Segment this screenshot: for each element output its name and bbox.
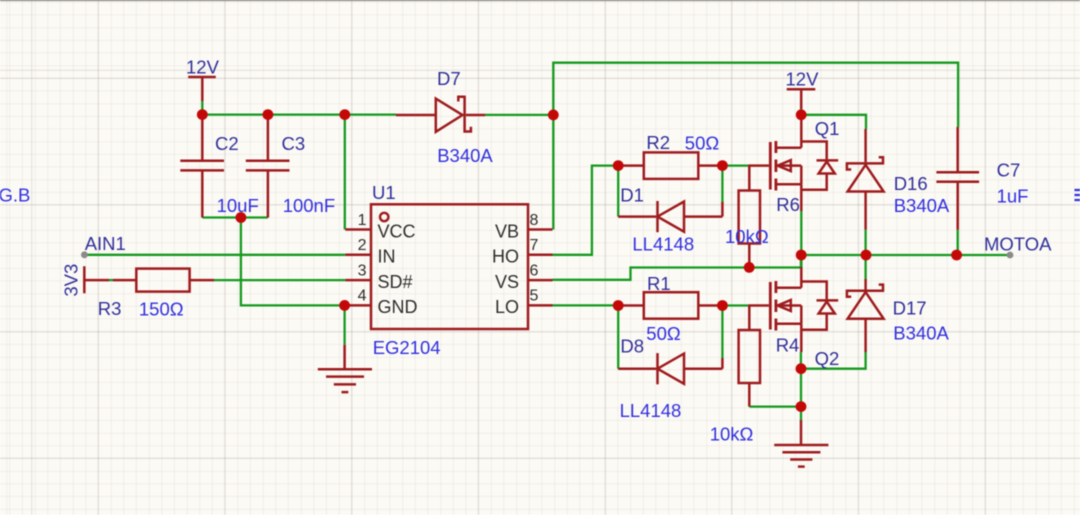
svg-text:12V: 12V [786, 69, 820, 90]
wire D16 anode lower [864, 230, 866, 255]
svg-text:2: 2 [358, 237, 367, 254]
transistor Q1 [748, 164, 769, 167]
IC U1 body [371, 204, 528, 329]
svg-text:B340A: B340A [437, 145, 493, 166]
wire D1 left riser [617, 166, 619, 217]
svg-text:10kΩ: 10kΩ [710, 424, 754, 445]
svg-text:8: 8 [530, 212, 539, 229]
capacitor C7 [936, 127, 979, 230]
svg-text:C3: C3 [282, 133, 306, 154]
svg-text:IN: IN [378, 247, 396, 267]
svg-text:150Ω: 150Ω [139, 299, 184, 320]
wire 3V3 tick [109, 279, 113, 281]
node VCC junction [339, 109, 350, 120]
wire VB long top rail [553, 63, 958, 230]
resistor R1 [618, 304, 722, 307]
power flag 12V right [787, 89, 816, 109]
power flag 12V left [188, 77, 216, 101]
wire Q2 gate [722, 304, 748, 306]
wire D1 right riser [721, 166, 723, 202]
svg-text:Q1: Q1 [815, 118, 840, 139]
wire HO to R2/D1 node [553, 166, 619, 255]
svg-text:1uF: 1uF [997, 186, 1029, 207]
svg-text:G.B: G.B [0, 184, 30, 205]
svg-text:R4: R4 [776, 334, 800, 355]
svg-text:LL4148: LL4148 [620, 400, 682, 421]
svg-text:HO: HO [492, 247, 519, 267]
svg-text:VCC: VCC [378, 221, 416, 241]
svg-text:LO: LO [495, 297, 519, 317]
svg-text:LL4148: LL4148 [632, 234, 694, 255]
node VS output junction [796, 250, 807, 261]
svg-text:50Ω: 50Ω [646, 323, 681, 344]
svg-text:D7: D7 [437, 68, 461, 89]
svg-text:7: 7 [530, 237, 539, 254]
svg-text:B340A: B340A [894, 195, 950, 216]
node R4 bottom junction [796, 401, 807, 412]
node C2C3 bottom junction [236, 212, 247, 223]
wire D8 left riser [617, 306, 619, 369]
wire GND stub U1 [343, 305, 345, 344]
diode D17 [864, 279, 867, 290]
svg-text:SD#: SD# [378, 272, 413, 292]
capacitor C3 [246, 115, 290, 218]
wire D17 anode lower [801, 352, 866, 369]
node R1 right junction [717, 300, 728, 311]
resistor R2 [618, 164, 722, 167]
resistor R6 [748, 166, 751, 268]
svg-text:50Ω: 50Ω [685, 133, 720, 154]
IC U1 pin stubs left [345, 230, 371, 306]
svg-text:R1: R1 [647, 273, 671, 294]
diode D8 [618, 367, 656, 370]
resistor R4 [748, 306, 751, 407]
svg-text:VS: VS [495, 272, 519, 292]
svg-text:C2: C2 [215, 133, 239, 154]
wire AIN1 [84, 254, 345, 256]
svg-text:12V: 12V [186, 57, 220, 78]
node C7 bottom junction [951, 250, 962, 261]
svg-text:R2: R2 [646, 132, 670, 153]
transistor Q2 [748, 304, 769, 307]
svg-text:100nF: 100nF [283, 195, 335, 216]
diode D16 [864, 129, 867, 162]
node R2 left junction [613, 160, 624, 171]
svg-text:D1: D1 [620, 184, 644, 205]
wire 12V rail top-left [202, 101, 396, 115]
wire R4 bottom link [749, 405, 801, 407]
net label fragment right edge [1075, 190, 1080, 200]
svg-text:10uF: 10uF [217, 195, 259, 216]
svg-text:R3: R3 [98, 298, 122, 319]
node R1 left junction [613, 300, 624, 311]
node C3 top junction [263, 109, 274, 120]
svg-text:VB: VB [495, 221, 519, 241]
svg-text:3: 3 [358, 262, 367, 279]
wire Q1 source lower [800, 211, 802, 255]
power flag 3V3 [84, 266, 109, 293]
wire LO to R1 [553, 304, 619, 306]
svg-text:6: 6 [530, 262, 539, 279]
node GND1 junction [339, 300, 350, 311]
node 12V-left junction [197, 109, 208, 120]
node AIN1 endpoint [81, 251, 88, 258]
capacitor C2 [180, 115, 224, 218]
wire 12V-right stub lower [800, 109, 802, 115]
wire output-gnd link [800, 369, 802, 407]
wire D8 right riser [721, 306, 723, 359]
svg-text:AIN1: AIN1 [85, 233, 126, 254]
svg-text:D8: D8 [620, 336, 644, 357]
wire C2 C3 bottom bar [202, 216, 268, 218]
svg-text:10kΩ: 10kΩ [725, 226, 769, 247]
diode D7 [396, 114, 436, 117]
svg-text:R6: R6 [776, 194, 800, 215]
svg-text:5: 5 [530, 288, 539, 305]
wire GND2 stub [800, 407, 802, 420]
wire GND trunk [241, 218, 345, 306]
wire VS run [553, 255, 802, 280]
resistor R3 [113, 279, 214, 282]
node MOTOA endpoint [1007, 252, 1014, 259]
ground G2 [774, 420, 828, 467]
wire D17 cathode upper [864, 255, 866, 279]
wire D7 cathode to VB node [485, 114, 553, 116]
svg-text:3V3: 3V3 [61, 264, 82, 297]
wire Q2 source to node [800, 352, 802, 369]
svg-text:MOTOA: MOTOA [984, 234, 1052, 255]
svg-text:D17: D17 [893, 298, 927, 319]
wire Q1 gate [722, 164, 748, 166]
IC U1 pin1 dot [380, 213, 388, 221]
diode D1 [618, 215, 656, 218]
svg-text:B340A: B340A [893, 322, 949, 343]
wire C7 bottom [957, 230, 959, 255]
IC U1 pin stubs right [528, 230, 553, 306]
svg-text:U1: U1 [372, 182, 396, 203]
node 12V-right junction [796, 109, 807, 120]
wire MOTOA rail [801, 254, 1010, 256]
node R6 bottom junction [744, 262, 755, 273]
wire Q2 drain upper [800, 255, 802, 267]
svg-text:4: 4 [358, 288, 367, 305]
node D16 anode junction [861, 250, 872, 261]
svg-text:Q2: Q2 [815, 348, 840, 369]
svg-text:D16: D16 [894, 173, 928, 194]
node Q2 source junction [796, 363, 807, 374]
ground G1 [318, 345, 372, 392]
wire 12V node to D16 [801, 115, 866, 129]
svg-text:GND: GND [378, 297, 418, 317]
wire VCC riser [344, 115, 346, 230]
svg-text:1: 1 [358, 212, 367, 229]
node VB junction [548, 110, 559, 121]
svg-text:EG2104: EG2104 [373, 337, 441, 358]
node R2 right junction [717, 160, 728, 171]
svg-text:C7: C7 [997, 160, 1021, 181]
wire R3 to SD# [214, 279, 345, 281]
